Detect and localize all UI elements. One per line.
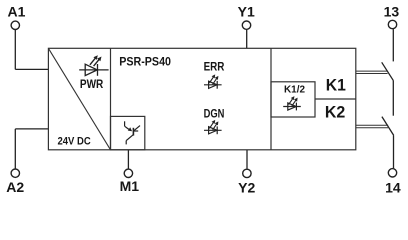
svg-text:ERR: ERR <box>204 59 225 73</box>
terminal A1 circle <box>11 21 19 29</box>
K1/2 LED <box>283 96 301 110</box>
svg-text:24V DC: 24V DC <box>58 136 91 148</box>
terminal Y1 circle <box>242 21 250 29</box>
wire 14 to contact <box>393 135 395 168</box>
svg-text:13: 13 <box>384 3 400 19</box>
power supply diagonal <box>48 48 110 150</box>
wire A2 vertical <box>14 129 16 169</box>
ERR LED <box>204 74 222 88</box>
wire A1 horizontal <box>15 68 48 70</box>
M1 output transistor box <box>111 116 145 149</box>
svg-text:PWR: PWR <box>80 79 104 91</box>
svg-text:M1: M1 <box>120 178 140 194</box>
svg-text:PSR-PS40: PSR-PS40 <box>119 55 171 69</box>
svg-text:A1: A1 <box>8 4 26 20</box>
contact K2 blade <box>382 117 394 136</box>
transistor symbol <box>125 121 140 144</box>
wire 13 to contact <box>392 29 394 61</box>
K1/2 coil box <box>271 82 315 117</box>
svg-text:DGN: DGN <box>204 106 225 120</box>
svg-text:Y2: Y2 <box>238 179 255 195</box>
svg-text:A2: A2 <box>6 179 24 195</box>
wire A1 vertical <box>14 30 16 70</box>
K1 K2 separator line <box>315 98 356 100</box>
svg-text:K1/2: K1/2 <box>284 85 305 96</box>
transistor arrowhead <box>128 127 132 131</box>
relay section divider <box>270 48 272 150</box>
DGN LED <box>204 120 222 134</box>
terminal Y2 circle <box>243 169 251 177</box>
svg-text:K2: K2 <box>325 104 345 122</box>
terminal 14 circle <box>388 169 396 177</box>
svg-text:Y1: Y1 <box>238 4 255 20</box>
mechanical link K2 double line <box>356 125 388 127</box>
contact K1 blade <box>382 62 394 81</box>
mechanical link K1 double line <box>356 71 388 73</box>
terminal 13 circle <box>388 20 396 28</box>
svg-text:14: 14 <box>385 180 401 196</box>
main module box <box>48 48 355 150</box>
wire Y1 <box>246 30 248 49</box>
terminal M1 circle <box>124 169 132 177</box>
wire between contacts <box>392 81 394 116</box>
wire M1 <box>127 150 129 169</box>
svg-text:K1: K1 <box>326 77 346 95</box>
power supply section divider <box>110 48 112 150</box>
wire A2 horizontal <box>15 128 48 130</box>
PWR LED symbol <box>79 58 108 76</box>
wire Y2 <box>246 150 248 169</box>
terminal A2 circle <box>11 169 19 177</box>
